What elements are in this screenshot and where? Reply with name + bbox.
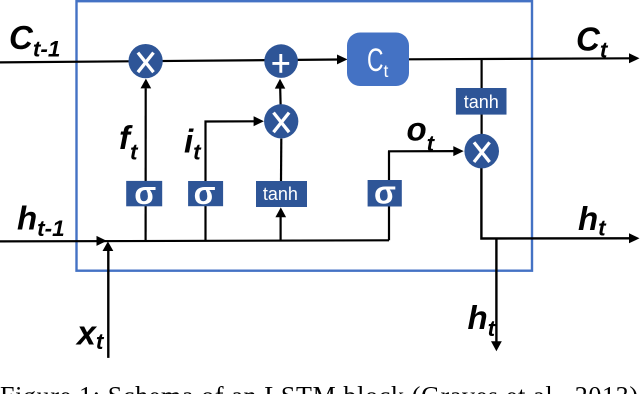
wire: top line down through right tanh to right X circle <box>481 59 483 89</box>
wire: sigma1 vertical from h-line up to X circle <box>145 88 147 241</box>
C_t state box <box>347 33 409 87</box>
wire: C(t-1) top line into C_t box <box>0 60 339 63</box>
arrowhead up into X circle <box>141 79 152 89</box>
svg-text:tanh: tanh <box>263 184 298 204</box>
wire: x_t vertical up into h line <box>107 251 109 358</box>
wire: right X circle down and out right as h_t <box>481 168 630 239</box>
add circle + <box>264 44 298 78</box>
multiply circle X (right) <box>464 134 499 169</box>
svg-text:Figure 1: Schema of an LSTM bl: Figure 1: Schema of an LSTM block (Grave… <box>0 381 638 394</box>
svg-text:tanh: tanh <box>464 92 499 112</box>
svg-text:t: t <box>384 61 389 81</box>
arrowhead C_t out right <box>629 53 640 63</box>
wire: middle tanh box top to middle X circle bottom <box>280 139 282 182</box>
arrowhead into C_t box <box>337 55 348 65</box>
svg-text:C: C <box>367 42 384 78</box>
svg-text:σ: σ <box>194 175 216 211</box>
wire: sigma3 vertical and o_t horizontal <box>388 151 390 240</box>
wire: middle X up to + circle <box>279 89 282 105</box>
tanh box (candidate) <box>256 181 307 207</box>
svg-text:σ: σ <box>134 175 156 211</box>
wire: C_t box to right edge <box>409 58 630 59</box>
sigma box 1 (forget gate) <box>126 181 162 206</box>
wire: h_t branch down <box>495 239 497 342</box>
wire: h(t-1) bottom line <box>0 240 389 241</box>
arrowhead x_t up <box>103 241 114 251</box>
wire: h-line up into middle tanh box bottom <box>280 217 282 241</box>
multiply circle X (top left) <box>128 44 162 78</box>
wire: sigma2 vertical + i_t horizontal into middle X circle <box>206 121 255 240</box>
arrowhead h_t down <box>491 341 502 351</box>
arrowhead into right X circle <box>453 146 463 156</box>
arrowhead h_t out right <box>629 233 640 243</box>
multiply circle X (middle) <box>264 104 298 138</box>
arrowhead up into + circle <box>275 79 286 89</box>
LSTM cell boundary box <box>77 1 533 271</box>
arrowhead into middle X circle <box>254 116 264 126</box>
svg-text:σ: σ <box>374 175 396 211</box>
arrowhead on h line pointing right <box>97 236 107 246</box>
tanh box (right, output) <box>456 88 507 115</box>
sigma box 2 (input gate) <box>188 181 223 206</box>
arrowhead up into tanh box <box>275 207 286 217</box>
sigma box 3 (output gate) <box>368 180 402 207</box>
